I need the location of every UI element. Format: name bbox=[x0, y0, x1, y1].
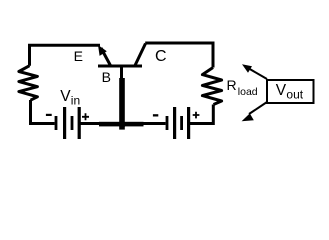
arrow: V_out lower probe (points down-left) bbox=[242, 102, 267, 121]
base lead (thin upper part) bbox=[120, 66, 123, 80]
emitter lead bbox=[101, 48, 111, 67]
svg-text:C: C bbox=[155, 48, 167, 65]
svg-text:B: B bbox=[102, 69, 111, 85]
V_out box bbox=[267, 80, 314, 103]
resistor R_load bbox=[202, 68, 221, 105]
arrow: V_out upper probe (points up-left) bbox=[242, 64, 267, 79]
collector lead bbox=[135, 44, 146, 67]
label: plus sign (V_in positive terminal) bbox=[82, 113, 89, 120]
battery V_in (left source) bbox=[55, 107, 81, 139]
svg-text:R: R bbox=[227, 77, 237, 93]
resistor (source resistance, left) bbox=[19, 66, 38, 101]
svg-text:V: V bbox=[276, 82, 287, 99]
svg-text:V: V bbox=[60, 88, 71, 105]
label: plus sign (right battery positive terminal) bbox=[193, 112, 200, 119]
transistor Q1 bbox=[98, 44, 146, 130]
base bar bbox=[98, 65, 142, 68]
wire: bottom rail from V_in+ to base junction (thick segment) bbox=[80, 122, 100, 125]
battery (output-side bias source) bbox=[166, 107, 191, 139]
base lead (thick lower part) bbox=[119, 78, 125, 130]
junction: base lead to bottom rail bbox=[119, 121, 126, 128]
wire: bottom rail from right battery to right vertical bbox=[190, 105, 213, 124]
wire: top-left horizontal + left vertical (emitter to source resistor) bbox=[30, 45, 101, 65]
label: minus sign (right battery negative terminal) bbox=[153, 114, 158, 116]
wire: bottom rail from base junction to right battery bbox=[143, 122, 166, 125]
svg-text:in: in bbox=[71, 94, 80, 108]
emitter arrowhead bbox=[98, 45, 107, 56]
svg-text:out: out bbox=[286, 88, 303, 102]
wire: left vertical below resistor to bottom rail bbox=[31, 100, 55, 124]
svg-text:E: E bbox=[74, 48, 83, 64]
label: minus sign (V_in negative terminal) bbox=[46, 114, 52, 116]
svg-text:load: load bbox=[238, 86, 258, 98]
wire: right vertical above R_load + top-right horizontal to collector bbox=[145, 43, 213, 68]
